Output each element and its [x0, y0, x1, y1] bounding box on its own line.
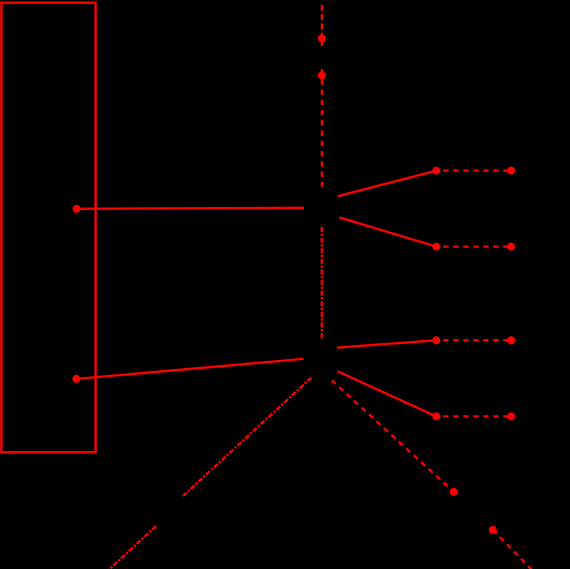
- node L point: [507, 412, 515, 420]
- node B point: [318, 72, 326, 80]
- node F point: [432, 243, 440, 251]
- wire dashed edge node D to node E: [443, 169, 511, 171]
- node G point: [507, 243, 515, 251]
- wire solid edge hub2 to node K: [338, 371, 437, 416]
- wire solid edge hub1 to node F: [339, 217, 436, 246]
- wire dash-dot edge hub1 to hub2: [321, 227, 323, 338]
- node E point: [507, 167, 515, 175]
- wire solid edge node C to hub1: [77, 208, 305, 209]
- node N point: [489, 526, 497, 534]
- wire dashed edge node F to node G: [443, 245, 511, 247]
- wire dash-dot edge hub2 to hidden node O: [183, 378, 311, 496]
- wire solid edge hub2 to node I: [337, 340, 436, 347]
- wire top dashed edge into node A: [321, 5, 323, 46]
- node K point: [432, 412, 440, 420]
- wire dashed edge node I to node J: [443, 339, 511, 341]
- node M point: [450, 488, 458, 496]
- node C point: [73, 205, 81, 213]
- node I point: [432, 336, 440, 344]
- node D point: [432, 167, 440, 175]
- wire solid edge node H to hub2: [76, 359, 303, 379]
- node J point: [507, 336, 515, 344]
- wire dashed edge node K to node L: [443, 415, 511, 417]
- wire dashed edge node B to hub1: [321, 69, 323, 187]
- node H point: [72, 375, 80, 383]
- cluster box: [1, 3, 95, 453]
- wire dash-dot edge hidden node O exiting bottom left: [109, 526, 156, 569]
- wire dashed edge hub2 to node M: [332, 380, 454, 492]
- node A point: [318, 35, 326, 43]
- wire dashed edge node N exiting bottom right: [493, 530, 532, 569]
- wire solid edge hub1 to node D: [338, 171, 437, 197]
